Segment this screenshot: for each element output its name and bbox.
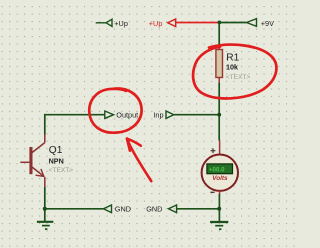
transistor Q1 xyxy=(20,135,45,188)
svg-text:10k: 10k xyxy=(226,63,238,72)
node junction Inp xyxy=(217,113,221,117)
svg-text:+Up: +Up xyxy=(149,19,163,28)
pin R1 top (red stub) xyxy=(218,45,220,50)
label + of meter xyxy=(211,148,216,153)
terminal GND right (mirrored) xyxy=(169,205,177,213)
terminal +Up (floating power terminal, top left) xyxy=(96,19,112,26)
wire red +Up to junction xyxy=(176,22,220,24)
pin meter + (red stub) xyxy=(219,140,221,155)
wire GND terminal to meter ground xyxy=(177,208,220,210)
resistor R1 xyxy=(216,50,223,78)
svg-text:+Up: +Up xyxy=(114,19,128,28)
node junction top xyxy=(218,21,222,25)
terminal Inp xyxy=(166,111,174,118)
terminal +Up (red, mirrored) xyxy=(168,19,176,27)
svg-text:GND: GND xyxy=(115,205,131,214)
svg-text:Inp: Inp xyxy=(153,111,163,120)
ground (left, under Q1) xyxy=(37,209,53,229)
wire R1 to Inp junction and meter xyxy=(218,83,220,141)
annotation red circle around Output xyxy=(89,89,141,133)
annotation red arrow pointing at Output xyxy=(127,139,151,182)
svg-text:Volts: Volts xyxy=(212,175,228,182)
terminal +9V xyxy=(247,19,257,27)
svg-text:+00.0: +00.0 xyxy=(209,166,225,173)
wire Q1 emitter to ground junction xyxy=(44,187,46,209)
wire Q1 collector up and across to Output xyxy=(45,115,105,135)
wire emitter junction to GND terminal xyxy=(45,208,104,210)
terminal Output xyxy=(105,111,114,118)
wire meter to ground junction xyxy=(218,194,220,209)
svg-text:Output: Output xyxy=(116,111,138,120)
node junction emitter xyxy=(43,207,47,211)
wire junction to +9V terminal xyxy=(219,22,246,24)
voltmeter body xyxy=(202,155,238,191)
pin meter - (red stub) xyxy=(219,191,221,194)
svg-text:NPN: NPN xyxy=(49,157,64,166)
voltmeter LCD display xyxy=(207,164,233,174)
wire junction down to R1 xyxy=(218,23,220,46)
pin R1 bottom (red stub) xyxy=(218,78,220,84)
svg-text:<TEXT>: <TEXT> xyxy=(226,74,251,81)
svg-text:<TEXT>: <TEXT> xyxy=(49,167,74,174)
ground (right, under meter) xyxy=(210,209,228,229)
node junction meter ground xyxy=(217,207,221,211)
terminal GND left xyxy=(103,205,111,213)
wire Inp to junction xyxy=(174,114,219,116)
annotation red ellipse around R1 xyxy=(193,45,276,99)
svg-text:Q1: Q1 xyxy=(49,145,63,156)
svg-text:GND: GND xyxy=(146,205,162,214)
svg-text:+9V: +9V xyxy=(261,19,274,28)
label - of meter xyxy=(210,191,214,193)
